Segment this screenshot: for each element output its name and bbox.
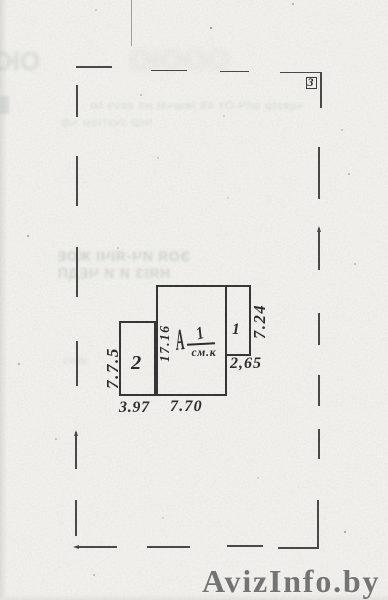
boundary left edge: dash 4 <box>76 341 78 386</box>
faint crease line top center <box>131 0 132 46</box>
bleed-through faint small line mid-lower <box>24 356 88 367</box>
boundary right edge: dash 4 <box>318 375 320 406</box>
dimension 7.7.5 vertical <box>103 347 123 389</box>
paper shading bottom edge <box>0 594 388 600</box>
boundary right edge: dash 6 to corner <box>317 500 319 549</box>
boundary left edge: dash 3 <box>76 247 78 297</box>
label fraction denominator см.к <box>192 347 217 359</box>
label room number 2 <box>131 352 141 375</box>
boundary top edge: dash 4 to corner <box>280 72 322 74</box>
boundary left edge: stub below top-left corner <box>76 85 78 117</box>
parcel number box 3 <box>306 77 317 89</box>
boundary top-right corner stub <box>320 72 322 108</box>
boundary bottom edge: dash 2 <box>147 546 190 548</box>
label 17.16 vertical <box>157 325 173 362</box>
boundary right edge: dash 1 <box>318 147 320 199</box>
paper shading left edge <box>0 0 7 600</box>
boundary left edge: dash 6 <box>75 500 77 536</box>
watermark AvizInfo.by <box>202 563 380 600</box>
dimension 7.24 vertical <box>250 303 270 338</box>
label fraction numerator 1 <box>194 322 206 344</box>
label room number 1 <box>232 321 240 339</box>
building room 1 annex right <box>225 285 251 356</box>
bleed-through small text lines upper <box>8 100 303 112</box>
boundary bottom edge: dash 4 to corner <box>278 547 319 549</box>
boundary right edge: dash 3 <box>318 313 320 345</box>
building room 2 annex left <box>119 321 157 397</box>
boundary top edge: dash 1 <box>76 66 112 68</box>
bleed-through bold mid lines <box>0 249 190 264</box>
boundary top edge: dash 3 <box>220 71 249 73</box>
boundary bottom edge: dash 1 with left arrow <box>78 546 117 548</box>
dimension 2.65 <box>230 355 262 373</box>
building main room A <box>156 285 227 396</box>
boundary top edge: dash 2 <box>151 70 187 72</box>
boundary right edge: dash 2 with up arrow <box>318 228 320 270</box>
boundary left edge: dash 2 <box>76 156 78 206</box>
bleed-through left edge block <box>0 96 9 114</box>
boundary bottom edge: dash 3 <box>227 545 263 547</box>
dimension 3.97 <box>119 399 150 417</box>
label fraction bar <box>187 342 215 345</box>
dimension 7.70 <box>170 398 203 416</box>
boundary left edge: dash 5 with up arrow <box>75 432 77 469</box>
bleed-through big heading top <box>0 46 40 77</box>
label letter A <box>174 323 186 358</box>
boundary right edge: dash 5 <box>318 429 320 459</box>
